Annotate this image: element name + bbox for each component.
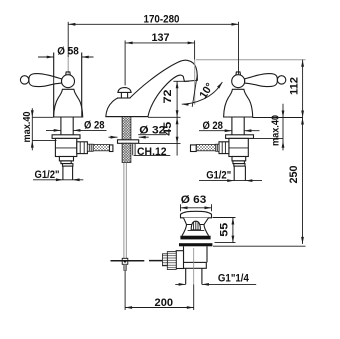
right handle ball top screw [236, 72, 241, 75]
right lever end knob [277, 76, 285, 84]
right supply pipe G1/2 [234, 166, 245, 180]
left pipe top band [63, 164, 73, 167]
left hose end cap [110, 145, 113, 152]
right braided hose [196, 145, 216, 151]
drain tailpiece [186, 268, 202, 284]
left hose nipple [87, 144, 93, 151]
pop-up rod lower stub [124, 264, 127, 270]
drain centerline extension [193, 284, 195, 310]
drain bell flare [182, 225, 209, 236]
gray reference line vertical through spout tip [194, 60, 196, 105]
drain outlet hex nut [167, 252, 176, 270]
dimension D28 right [199, 120, 260, 132]
drain gasket bar upper [180, 236, 210, 240]
svg-text:G1"1/4: G1"1/4 [218, 272, 250, 284]
right valve step 1 [232, 157, 246, 161]
right handle centerline [238, 22, 240, 74]
dimension 112 [289, 60, 304, 118]
spout pommel stem [121, 92, 127, 98]
drain gasket bar lower [179, 243, 212, 246]
pop-up rod joint [122, 258, 128, 264]
pop-up rod extension line [124, 271, 126, 311]
deck reference line right [252, 117, 302, 119]
dimension D28 left [46, 120, 107, 132]
spout body [106, 60, 198, 116]
svg-text:Ø 28: Ø 28 [84, 120, 105, 132]
dimension 72 [162, 81, 179, 117]
svg-text:G1/2": G1/2" [206, 170, 231, 182]
drain body step [181, 262, 206, 268]
svg-text:Ø 28: Ø 28 [202, 120, 223, 132]
dimension G1/2 left [33, 169, 83, 181]
dimension D58 [38, 46, 94, 117]
left valve hex nut [77, 142, 88, 154]
right handle ball [232, 75, 245, 88]
pop-up rod [124, 163, 126, 259]
svg-text:72: 72 [162, 90, 174, 104]
right valve body [229, 138, 248, 156]
10 degree arc [182, 82, 223, 106]
left handle ball top screw [66, 72, 71, 75]
left supply pipe G1/2 [63, 166, 73, 180]
svg-text:G1/2": G1/2" [35, 169, 60, 181]
drain flange [181, 211, 212, 218]
svg-text:55: 55 [218, 223, 230, 237]
left handle bell [54, 89, 83, 117]
left handle flange [52, 135, 80, 139]
dimension 55 [213, 218, 236, 243]
left valve body [55, 138, 76, 156]
svg-text:170-280: 170-280 [144, 14, 180, 26]
drain body [184, 246, 208, 262]
D58 extension lines over handle [54, 53, 82, 117]
left valve step 1 [59, 157, 73, 161]
spout pommel cap [118, 88, 131, 93]
right valve step 2 [233, 161, 245, 164]
left handle ball [62, 75, 75, 88]
svg-text:112: 112 [289, 77, 301, 95]
10 degree tilt line [192, 75, 197, 107]
drain knob [191, 221, 200, 230]
right pipe top band [234, 164, 245, 167]
svg-text:Ø 58: Ø 58 [57, 46, 79, 58]
spout base bottom edge [106, 116, 148, 118]
right handle flange [226, 135, 254, 139]
left handle lever [29, 74, 62, 87]
svg-text:200: 200 [155, 297, 174, 309]
right hose nipple [216, 144, 219, 151]
dimension D32 [109, 124, 167, 138]
spout shoulder line [117, 97, 131, 99]
left braided hose [93, 145, 109, 151]
svg-text:max.40: max.40 [271, 115, 282, 146]
right hose end cap [191, 145, 197, 152]
gray reference line horizontal spout top level [196, 59, 306, 61]
left valve step 2 [61, 161, 71, 164]
spout threaded shank lower [122, 143, 131, 162]
pop-up horizontal lever [111, 260, 164, 262]
right handle bell [224, 89, 253, 117]
svg-text:137: 137 [152, 32, 170, 44]
dimension 137 [125, 32, 195, 85]
dimension 250 [213, 118, 306, 247]
svg-text:Ø 32: Ø 32 [139, 124, 165, 136]
dimension 170-280 [68, 14, 238, 57]
dimension max.40 right [254, 104, 285, 151]
dimension G1 1/4 [175, 272, 256, 285]
spout threaded shank upper [122, 117, 131, 140]
svg-text:250: 250 [288, 166, 300, 184]
deck reference line mid [148, 116, 181, 118]
svg-text:Ø 63: Ø 63 [181, 194, 207, 206]
label CH.12 [134, 146, 171, 158]
right handle lever [245, 74, 278, 87]
right handle stem [232, 117, 244, 135]
svg-text:max.40: max.40 [22, 111, 33, 142]
left handle centerline [67, 57, 69, 74]
right valve hex nut [219, 142, 229, 154]
left handle stem [61, 117, 73, 135]
dimension max.40 left [22, 108, 57, 150]
dimension 200 [125, 297, 194, 309]
dimension D63 [181, 194, 212, 211]
cartridge tube right of shank [133, 144, 135, 155]
drain neck taper [184, 218, 209, 225]
drain outlet small hex [162, 254, 167, 266]
left lever end knob [20, 76, 28, 84]
dimension G1/2 right [199, 170, 262, 182]
svg-text:CH.12: CH.12 [137, 146, 167, 158]
dimension 45 [139, 117, 181, 155]
drain centerline [193, 248, 195, 284]
spout shank flange nut [118, 140, 139, 144]
drain outlet connector [176, 251, 183, 269]
mouth bottom reference line [173, 80, 189, 82]
